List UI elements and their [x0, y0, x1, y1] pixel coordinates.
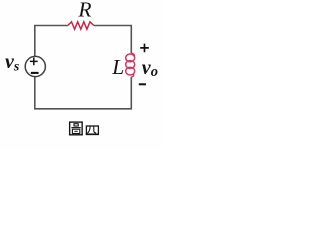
svg-text:R: R	[77, 0, 91, 21]
svg-text:vs: vs	[5, 51, 20, 75]
svg-text:vo: vo	[142, 57, 158, 80]
svg-text:L: L	[111, 55, 124, 79]
